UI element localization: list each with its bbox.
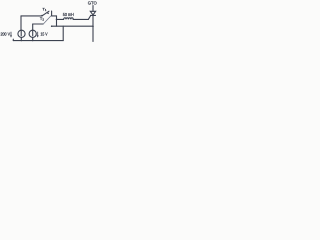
svg-text:GTO: GTO <box>88 1 97 6</box>
wire V2 bottom lead <box>32 37 34 40</box>
wire bottom rail <box>13 40 63 42</box>
GTO thyristor symbol <box>90 11 95 15</box>
wire to inductor <box>57 18 64 20</box>
svg-text:T2: T2 <box>40 16 44 22</box>
wire cathode rail <box>92 15 94 41</box>
switch T2 blade <box>43 16 51 24</box>
node V1 rail junction <box>21 40 22 41</box>
wire gate-cathode return <box>52 25 93 27</box>
wire left rail <box>20 16 22 30</box>
GTO gate lead <box>88 16 90 20</box>
node V1 internal lead <box>20 30 22 36</box>
wire top horizontal <box>21 15 42 17</box>
wire bottom-left stub <box>12 39 14 40</box>
wire inductor to gate <box>73 18 88 20</box>
voltage arrow V2 shaft <box>37 32 39 37</box>
wire 15V branch horizontal <box>33 23 44 25</box>
wire pole to corner <box>52 15 57 17</box>
switch pole contact bar <box>51 11 53 16</box>
node cathode junction <box>92 26 94 28</box>
wire anode lead <box>92 6 94 12</box>
arrowhead V1 <box>10 35 12 37</box>
node switch right contact <box>47 13 49 15</box>
svg-text:50 mH: 50 mH <box>63 12 74 17</box>
voltage source V1 (200 V) <box>18 30 25 37</box>
arrowhead V2 <box>37 35 39 37</box>
inductor L1 (50 mH) <box>64 18 74 20</box>
node switch left contact <box>41 15 43 17</box>
node junction inductor tap <box>56 19 58 21</box>
wire 15V branch top lead <box>32 24 34 30</box>
voltage arrow V1 shaft <box>10 32 12 37</box>
node return wire end <box>51 25 53 27</box>
svg-text:T1: T1 <box>42 7 46 13</box>
wire V1 bottom lead <box>20 37 22 40</box>
wire vertical drop <box>56 16 58 26</box>
svg-text:200 V: 200 V <box>1 31 11 36</box>
voltage source V2 (15 V) <box>29 30 36 37</box>
node V2 rail junction <box>32 40 33 41</box>
svg-text:15 V: 15 V <box>41 31 49 36</box>
wire mid vertical <box>62 26 64 40</box>
switch T1 blade <box>42 11 49 16</box>
node V2 internal lead <box>32 30 34 36</box>
GTO cathode bar <box>91 14 96 16</box>
